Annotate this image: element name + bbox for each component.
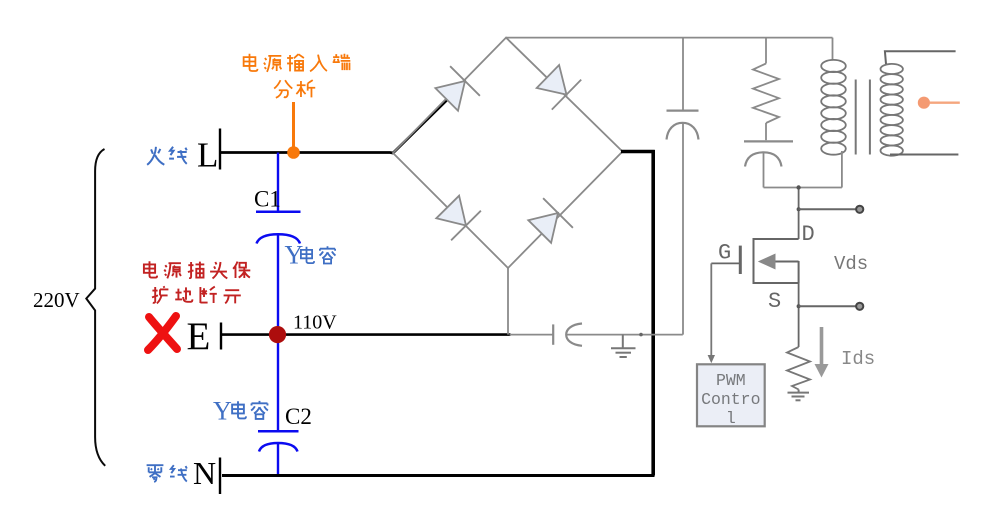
gate drive arrowhead [708,355,715,363]
MOSFET body arrow [758,254,776,270]
svg-text:L: L [197,136,218,175]
svg-text:Ids: Ids [841,348,875,370]
220V brace [86,149,105,466]
junction dot D branch [797,207,801,211]
transformer core [856,80,870,155]
junction dot [639,333,643,337]
terminal S ring [856,303,863,310]
sense resistor R2 [787,347,810,390]
svg-text:G: G [718,241,731,266]
svg-text:C2: C2 [285,404,312,429]
secondary bottom lead [890,154,958,156]
ground (mid) [611,335,636,357]
diode D2 (upper-right) [537,65,582,110]
PWM controller box [697,364,765,428]
orange annotation 电源输入端 / 分析 [244,54,351,98]
svg-text:l: l [726,409,736,428]
svg-text:C1: C1 [254,186,281,211]
MOSFET gate lead [711,262,740,264]
secondary center dot (orange) [918,97,930,109]
source wire down [798,283,800,347]
terminal tick L [219,129,221,170]
wire E (thick black) [222,333,511,336]
orange node dot [287,146,300,159]
label 零线 [147,465,187,482]
Y-capacitor branch blue wire [277,153,279,476]
snubber capacitor [744,141,793,166]
capacitor C2 [258,431,299,451]
svg-text:E: E [187,315,211,358]
dc bus top wire [506,37,833,39]
coupling capacitor on E line [553,324,582,346]
diode D1 (upper-left) [435,66,480,111]
terminal tick N [219,458,221,495]
svg-text:220V: 220V [33,288,80,312]
capacitor C1 [256,212,301,244]
red X mark [148,316,177,350]
label 火线 [147,147,187,165]
svg-text:110V: 110V [293,312,337,334]
svg-text:S: S [768,289,781,314]
svg-text:Vds: Vds [834,253,868,275]
Ids arrow [815,327,829,378]
drain branch wire [798,188,800,240]
transformer primary bottom lead [841,151,843,188]
snubber resistor R1 [753,38,779,141]
svg-text:Y: Y [213,397,232,426]
wire E extension (gray) [510,334,683,336]
terminal D wire [799,208,856,210]
label Y电容 (lower) [213,397,268,426]
wire N (thick black) [222,474,655,477]
svg-text:N: N [193,455,216,491]
svg-text:Contro: Contro [701,390,760,409]
diode D3 (lower-left) [436,196,481,241]
svg-text:PWM: PWM [716,371,746,390]
junction dot drain [796,185,800,189]
bulk capacitor branch wire [682,38,684,335]
wire bridge output (thick black) [621,150,655,476]
MOSFET gate bar [739,246,742,274]
MOSFET Q1 [754,238,799,284]
secondary orange lead [930,101,960,103]
bridge rectifier diamond [393,38,623,268]
secondary top lead [885,51,956,64]
transformer secondary winding [881,64,903,156]
junction dot S branch [797,304,801,308]
snubber bottom wire [764,152,842,187]
red annotation 电源插头保 / 护地断开 [144,261,250,303]
diode D4 (lower-right) [528,198,573,243]
gate drive wire [710,263,712,357]
transformer primary lead [832,38,834,61]
wire bridge bottom to E node [507,268,509,335]
transformer primary winding [821,60,846,155]
svg-text:D: D [802,222,815,247]
wire L to bridge (thick black, continues up left diode) [221,97,451,154]
label Y电容 (upper) [285,241,336,270]
terminal tick E [220,323,222,350]
terminal D ring [856,206,863,213]
bulk capacitor [667,111,699,140]
node 110V dot [269,326,286,343]
ground (right) [788,390,810,401]
orange callout line [292,102,295,147]
terminal S wire [799,305,856,307]
